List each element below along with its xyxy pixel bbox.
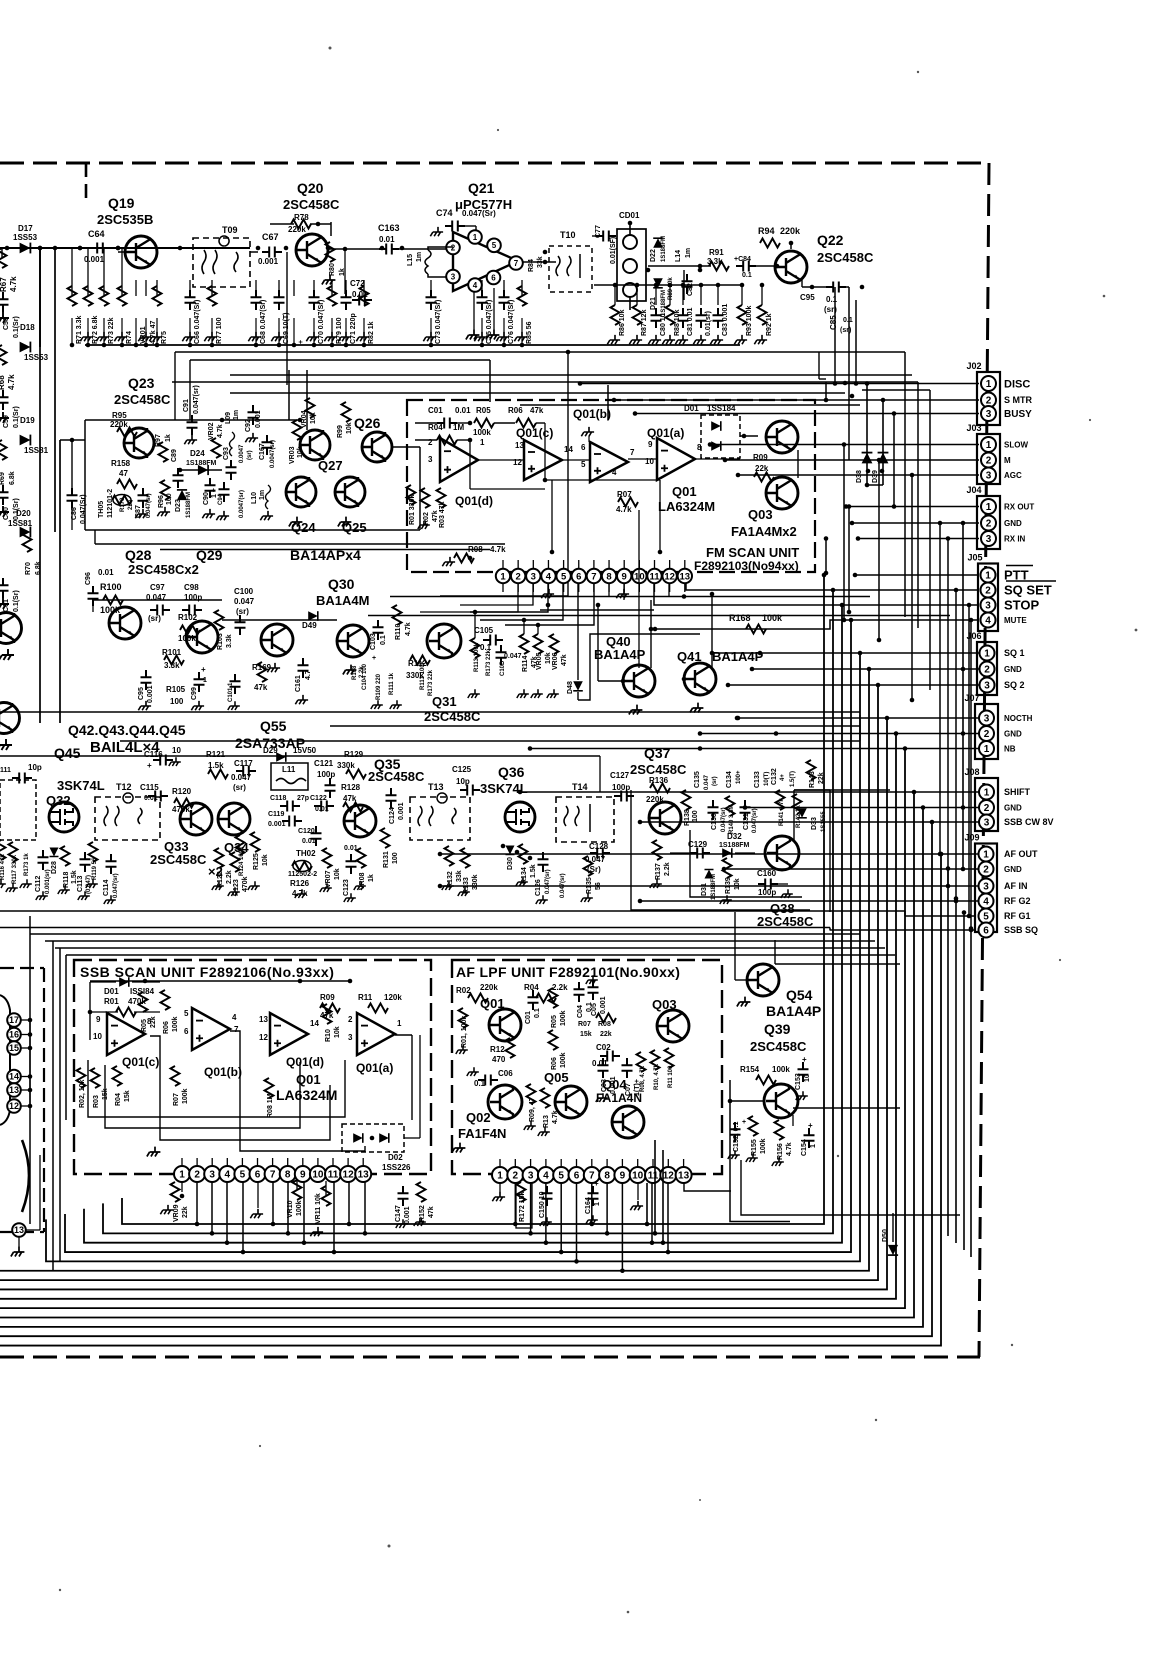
svg-text:11: 11: [649, 571, 660, 582]
vertical left g2: [59, 948, 61, 1262]
svg-text:C01: C01: [525, 1011, 532, 1024]
svg-text:D01: D01: [104, 987, 119, 996]
svg-text:+: +: [372, 655, 376, 662]
wire ssbdrop9: [364, 1181, 366, 1233]
svg-text:R01, 100k: R01, 100k: [461, 1016, 468, 1048]
svg-text:0.1: 0.1: [534, 1008, 541, 1018]
svg-text:C161: C161: [295, 675, 302, 692]
ground ssb mid: [147, 1147, 161, 1157]
svg-text:2: 2: [194, 1170, 200, 1181]
svg-text:AF OUT: AF OUT: [1004, 849, 1038, 859]
svg-text:13: 13: [259, 1015, 268, 1024]
wire jv7: [947, 539, 949, 887]
svg-text:VR07: VR07: [325, 870, 332, 888]
wire c152 drop: [741, 1160, 960, 1215]
svg-text:R131: R131: [383, 851, 390, 868]
svg-text:100k: 100k: [772, 1065, 790, 1074]
svg-text:Q37: Q37: [644, 745, 671, 761]
wire pin10 drop: [638, 510, 640, 668]
wire jv5: [825, 539, 827, 574]
wire jfeed17: [745, 807, 979, 809]
ground fm pin9: [616, 589, 629, 598]
pin 4 FM: [541, 569, 555, 583]
svg-text:4: 4: [473, 281, 478, 290]
svg-text:1m: 1m: [416, 252, 423, 262]
wire down from Q20 region: [286, 252, 288, 385]
op-amp Q01(c) ssb: [107, 1013, 145, 1055]
wire ssbsq rail: [830, 929, 975, 931]
svg-text:47k: 47k: [561, 654, 568, 666]
svg-text:8: 8: [606, 571, 611, 582]
svg-text:330k: 330k: [337, 761, 355, 770]
svg-text:R08: R08: [468, 545, 483, 554]
pin 6 AF: [569, 1167, 585, 1183]
svg-text:22k: 22k: [182, 1206, 189, 1218]
svg-text:1 +: 1 +: [211, 488, 218, 498]
diode D50: [888, 1245, 898, 1255]
fet Q36: [505, 802, 535, 832]
ground rf left: [0, 879, 6, 888]
op-amp Q01(d) ssb: [270, 1013, 308, 1055]
wire fmstub2: [532, 560, 534, 569]
svg-text:Q01(d): Q01(d): [286, 1055, 324, 1069]
svg-text:D20: D20: [16, 509, 31, 518]
svg-text:R170: R170: [120, 497, 126, 512]
svg-text:Q02: Q02: [466, 1110, 491, 1125]
svg-text:10(T): 10(T): [764, 772, 770, 786]
svg-text:4: 4: [983, 897, 989, 908]
transistor Q39: [764, 1084, 798, 1118]
svg-text:4.7k: 4.7k: [405, 622, 412, 636]
wire Q26 right: [392, 446, 420, 448]
pin 14 left connector: [7, 1070, 21, 1084]
svg-text:C128: C128: [589, 842, 609, 851]
svg-text:C125: C125: [452, 765, 472, 774]
svg-text:5: 5: [581, 460, 586, 469]
wire q38 out: [793, 790, 795, 842]
svg-text:DISC: DISC: [1004, 378, 1030, 390]
wire right col b: [862, 389, 930, 391]
wire bus L9: [0, 734, 896, 1299]
op-amp Q01(d): [440, 438, 478, 482]
wire midv2: [662, 1150, 664, 1243]
wire cd01 rail: [594, 284, 744, 286]
svg-text:2: 2: [513, 1171, 519, 1182]
svg-text:2: 2: [516, 571, 521, 582]
svg-text:100: 100: [392, 852, 399, 864]
wire pin9 stub: [623, 583, 625, 600]
svg-text:7: 7: [514, 259, 519, 268]
svg-text:120k: 120k: [384, 993, 402, 1002]
svg-text:R78: R78: [294, 213, 309, 222]
transistor Q33: [180, 803, 212, 835]
wire bus top-c: [172, 381, 918, 383]
svg-text:R105: R105: [166, 685, 186, 694]
svg-text:4: 4: [232, 1013, 237, 1022]
svg-text:100: 100: [170, 697, 184, 706]
svg-text:C64: C64: [88, 229, 105, 239]
left connector body: [0, 995, 10, 1125]
wire bus L6: [0, 669, 869, 1271]
pin 3 Q21: [446, 270, 460, 284]
svg-text:12: 12: [259, 1033, 268, 1042]
svg-text:GND: GND: [1004, 665, 1022, 674]
svg-text:D17: D17: [18, 224, 33, 233]
transistor Q01 af: [489, 1009, 521, 1041]
svg-text:1S188FM: 1S188FM: [186, 492, 192, 518]
svg-text:6: 6: [184, 1027, 189, 1036]
svg-text:Q27: Q27: [318, 458, 343, 473]
svg-text:R09: R09: [320, 993, 335, 1002]
wire q30 row: [222, 619, 337, 621]
pin 1 J06: [980, 646, 995, 661]
wire left col: [39, 248, 41, 347]
svg-text:J05: J05: [968, 553, 983, 563]
pin 2 Q21: [446, 241, 460, 255]
pin 13 left lower: [12, 1223, 26, 1237]
pin 2 J09: [979, 862, 994, 877]
svg-text:14: 14: [310, 1019, 319, 1028]
pin 2 J06: [980, 662, 995, 677]
svg-text:M: M: [1004, 456, 1011, 465]
svg-text:BA1A4P: BA1A4P: [594, 647, 646, 662]
svg-text:10k: 10k: [346, 422, 353, 434]
wire fmstub5: [578, 560, 580, 569]
wire afdrop5: [591, 1183, 593, 1224]
op-amp Q01(a): [657, 438, 695, 480]
svg-text:LA6324M: LA6324M: [658, 499, 715, 514]
vertical left g3: [65, 955, 67, 1120]
wire pin6 drop to D48: [577, 583, 579, 680]
wire jv9: [968, 605, 970, 916]
svg-text:1SS81: 1SS81: [24, 446, 49, 455]
svg-text:R121: R121: [206, 750, 226, 759]
svg-text:R06: R06: [508, 406, 523, 415]
pin 3 J03: [981, 468, 996, 483]
pin 3 J06: [980, 678, 995, 693]
svg-text:C127: C127: [610, 771, 630, 780]
svg-text:CD01: CD01: [619, 211, 640, 220]
pin 8 AF: [599, 1167, 615, 1183]
transistor Q54 BA1A4P: [747, 964, 779, 996]
wire jfeed6: [846, 506, 979, 508]
svg-text:μPC577H: μPC577H: [455, 197, 512, 212]
svg-text:AGC: AGC: [1004, 471, 1022, 480]
svg-text:D32: D32: [727, 832, 742, 841]
svg-text:R85 56: R85 56: [526, 321, 533, 344]
svg-text:C91: C91: [183, 399, 190, 412]
wire under q23 rail 2: [160, 549, 490, 551]
svg-text:22k: 22k: [600, 1031, 612, 1038]
op-amp Q01(c): [524, 440, 562, 480]
svg-text:3.3k: 3.3k: [226, 634, 233, 648]
wire jfeed14: [700, 733, 979, 735]
wire stop feed: [654, 583, 978, 605]
op-amp Q01(a) ssb: [357, 1013, 395, 1055]
svg-text:C167: C167: [259, 443, 266, 460]
svg-text:R96: R96: [158, 495, 165, 508]
svg-text:10: 10: [172, 746, 181, 755]
svg-text:R140 3.3M: R140 3.3M: [729, 805, 735, 834]
svg-text:D28: D28: [51, 861, 58, 874]
svg-text:SQ 1: SQ 1: [1004, 648, 1025, 658]
wire Q20 collector up: [330, 222, 332, 236]
svg-text:0.01: 0.01: [592, 1059, 608, 1068]
svg-text:Q28: Q28: [125, 547, 152, 563]
svg-text:C67: C67: [262, 232, 279, 242]
svg-text:0.1(Sr): 0.1(Sr): [13, 406, 20, 428]
svg-text:11: 11: [648, 1171, 659, 1182]
svg-text:+: +: [201, 665, 206, 674]
wire bus top-a: [175, 351, 905, 353]
wire ssb top rail: [90, 980, 350, 982]
svg-text:6: 6: [581, 443, 586, 452]
pin 5 SSB: [234, 1166, 250, 1182]
svg-text:Q01(d): Q01(d): [455, 494, 493, 508]
svg-text:LA6324M: LA6324M: [276, 1087, 337, 1103]
pin 1 J07: [979, 741, 994, 756]
junction dots mid: [621, 679, 626, 684]
wire ssb fb2: [105, 1062, 300, 1128]
pin 4 AF: [538, 1167, 554, 1183]
AF LPF UNIT box: [452, 960, 722, 1174]
svg-text:Q01(c): Q01(c): [516, 426, 553, 440]
svg-text:2SC458C: 2SC458C: [150, 852, 207, 867]
pin 9 FM: [617, 569, 631, 583]
svg-text:GND: GND: [1004, 519, 1022, 528]
svg-text:4: 4: [612, 468, 617, 477]
svg-text:2.2k: 2.2k: [359, 666, 365, 678]
wire jfeed9: [855, 574, 979, 576]
wire fmstub6: [593, 560, 595, 569]
wire bus L5: [46, 653, 860, 1261]
wire fmstub0: [502, 560, 504, 569]
svg-text:10: 10: [632, 1171, 644, 1182]
pin 7 SSB: [265, 1166, 281, 1182]
pin 2 FM: [511, 569, 525, 583]
transistor Q02 af: [488, 1085, 522, 1119]
svg-text:C115: C115: [140, 783, 159, 792]
wire jfeed10: [712, 652, 979, 654]
transistor Q05 af: [555, 1086, 587, 1118]
pin 3 FM: [526, 569, 540, 583]
svg-text:Q39: Q39: [764, 1021, 791, 1037]
pin 6 FM: [572, 569, 586, 583]
wire ssbdrop5: [287, 1181, 289, 1233]
svg-text:2: 2: [984, 729, 990, 740]
svg-text:R06: R06: [551, 1057, 558, 1070]
wire right col d: [904, 352, 906, 617]
svg-text:D30: D30: [507, 857, 514, 870]
wire q54 base: [735, 979, 747, 981]
wire jfeed7: [852, 522, 979, 524]
pin 4 SSB: [219, 1166, 235, 1182]
svg-text:0.001: 0.001: [398, 802, 405, 820]
pin 5 AF: [553, 1167, 569, 1183]
pin 13 FM: [678, 569, 692, 583]
wire fmstub7: [608, 560, 610, 569]
wire jfeed1: [614, 399, 979, 401]
svg-text:C82: C82: [687, 283, 694, 296]
svg-text:2: 2: [984, 665, 990, 676]
pin 1 AF: [492, 1167, 508, 1183]
svg-text:4: 4: [985, 616, 991, 627]
pin 3 J09: [979, 879, 994, 894]
svg-text:3: 3: [348, 1033, 353, 1042]
svg-text:R128: R128: [341, 783, 361, 792]
wire long mid vertical: [567, 352, 569, 596]
svg-text:BA1A4P: BA1A4P: [766, 1003, 821, 1019]
wire T09 to C67: [250, 251, 258, 253]
svg-text:6: 6: [255, 1170, 261, 1181]
svg-text:VR09: VR09: [173, 1204, 180, 1222]
svg-text:4+: 4+: [780, 774, 786, 781]
svg-text:1m: 1m: [685, 248, 692, 258]
svg-text:J02: J02: [967, 361, 982, 371]
wire fmstub1: [517, 560, 519, 569]
svg-text:6.8k: 6.8k: [9, 471, 16, 485]
wire pin3 left: [460, 583, 533, 605]
svg-text:100p: 100p: [758, 888, 776, 897]
pin 11 SSB: [325, 1166, 341, 1182]
wire top section bottom rail: [85, 344, 740, 346]
svg-text:D23: D23: [175, 499, 182, 512]
wire outer v1: [947, 869, 949, 1237]
svg-text:0.1: 0.1: [742, 272, 752, 279]
dots main rail: [78, 246, 83, 251]
svg-text:0.01: 0.01: [379, 235, 395, 244]
wire band separator 3: [859, 715, 861, 741]
svg-text:R05: R05: [476, 406, 491, 415]
svg-text:0.1(Sr): 0.1(Sr): [13, 316, 20, 338]
pin 1 FM: [496, 569, 510, 583]
svg-text:1SS81: 1SS81: [8, 519, 33, 528]
svg-text:R158: R158: [111, 459, 131, 468]
svg-text:0.1: 0.1: [843, 317, 853, 324]
svg-text:R108: R108: [352, 665, 358, 680]
svg-text:Q36: Q36: [498, 764, 525, 780]
wire afdrop2: [545, 1183, 547, 1243]
svg-text:Q03: Q03: [748, 507, 773, 522]
svg-text:C135: C135: [694, 771, 701, 788]
svg-text:2SC458C: 2SC458C: [368, 769, 425, 784]
svg-text:2SC458C: 2SC458C: [283, 197, 340, 212]
svg-text:R95: R95: [112, 411, 127, 420]
svg-text:9: 9: [622, 571, 627, 582]
FM SCAN UNIT box: [407, 400, 815, 572]
svg-text:VR03: VR03: [289, 446, 296, 464]
wire ssbdrop3: [242, 1181, 244, 1252]
wire gnd bus vertical: [962, 523, 964, 869]
svg-text:T14: T14: [572, 782, 588, 792]
transistor Q34: [218, 803, 250, 835]
wire jv10: [970, 620, 972, 930]
svg-text:C134: C134: [726, 771, 733, 788]
svg-text:R125: R125: [253, 853, 260, 870]
page dashed border bottom: [0, 1356, 980, 1359]
pin 1 J09: [979, 847, 994, 862]
svg-text:R168: R168: [729, 613, 751, 623]
svg-text:D39: D39: [872, 470, 879, 483]
svg-text:R173 22k: R173 22k: [428, 669, 434, 696]
svg-text:C02: C02: [596, 1043, 611, 1052]
wire afdrop1: [530, 1183, 532, 1233]
wire rail mid b: [0, 927, 830, 929]
svg-text:14: 14: [9, 1072, 19, 1082]
svg-text:RF G2: RF G2: [1004, 896, 1031, 906]
wire top to fm 2: [683, 270, 685, 300]
wire ssbdrop4: [272, 1181, 274, 1224]
svg-text:0.001: 0.001: [268, 821, 286, 828]
wire disc up: [855, 352, 857, 384]
svg-text:1: 1: [594, 1202, 601, 1206]
svg-text:2: 2: [983, 865, 989, 876]
svg-text:1: 1: [497, 1171, 503, 1182]
svg-text:AF LPF UNIT F2892101(No.90xx): AF LPF UNIT F2892101(No.90xx): [456, 964, 680, 980]
svg-text:47k: 47k: [432, 510, 439, 522]
svg-text:R10: R10: [325, 1029, 332, 1042]
svg-text:Q45: Q45: [54, 745, 81, 761]
wire ssbdrop1: [211, 1181, 213, 1233]
svg-text:R67: R67: [0, 277, 8, 292]
svg-text:2SC458C: 2SC458C: [817, 250, 874, 265]
svg-text:2SC458C: 2SC458C: [114, 392, 171, 407]
svg-text:R155: R155: [751, 1139, 758, 1156]
ground af left: [452, 1143, 466, 1153]
svg-text:Q01(c): Q01(c): [122, 1055, 159, 1069]
svg-text:R11: R11: [358, 993, 373, 1002]
wire jv0: [893, 414, 895, 507]
pin 7 Q21: [509, 256, 523, 270]
wire right col a: [844, 287, 846, 465]
svg-text:9: 9: [300, 1170, 306, 1181]
svg-text:(sr): (sr): [840, 327, 851, 334]
svg-text:4.7k: 4.7k: [9, 276, 18, 292]
pin 6 SSB: [250, 1166, 266, 1182]
svg-text:0.0047(sr): 0.0047(sr): [239, 490, 245, 518]
pin 9 SSB: [295, 1166, 311, 1182]
wire jfeed19: [440, 853, 979, 855]
svg-text:C121: C121: [314, 759, 334, 768]
wire jfeed15: [530, 748, 979, 750]
wire fmstub9: [638, 560, 640, 569]
svg-text:C96: C96: [85, 572, 92, 585]
wire Q23 rails: [288, 370, 290, 420]
svg-text:10: 10: [93, 1032, 102, 1041]
svg-text:100k: 100k: [560, 1010, 567, 1026]
svg-text:6: 6: [491, 273, 496, 282]
svg-text:C163: C163: [378, 223, 400, 233]
svg-text:3: 3: [451, 272, 456, 281]
svg-text:R109 220: R109 220: [376, 673, 382, 700]
wire fmstep3: [505, 583, 594, 625]
svg-text:0.047: 0.047: [504, 653, 522, 660]
svg-text:R84: R84: [528, 259, 535, 272]
svg-text:+: +: [147, 761, 152, 770]
svg-text:C103: C103: [370, 633, 377, 650]
svg-text:VR02: VR02: [208, 422, 215, 440]
svg-text:1m: 1m: [259, 490, 266, 500]
transistor QA left edge: [0, 613, 22, 644]
svg-text:R68: R68: [0, 375, 6, 390]
wire jfeed3: [710, 444, 979, 446]
wire under q23 rail 1: [95, 543, 505, 545]
svg-text:R02: R02: [423, 512, 430, 525]
transistor Q04 af: [612, 1106, 644, 1138]
svg-text:4.7k: 4.7k: [616, 505, 632, 514]
svg-text:1: 1: [810, 1144, 817, 1148]
svg-text:D38: D38: [856, 470, 863, 483]
